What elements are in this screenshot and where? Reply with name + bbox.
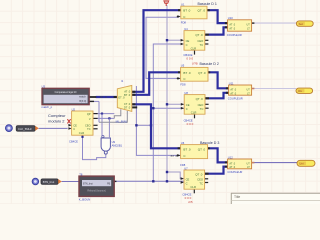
wire CE trunk (x=167) <box>166 5 168 181</box>
wire gate out to CLR <box>83 137 106 160</box>
junction cross 1 <box>135 124 137 126</box>
output port Uni <box>297 160 315 166</box>
wire coupler3 to port3 <box>252 162 297 164</box>
svg-text:QT .0: QT .0 <box>198 71 206 75</box>
power symbol VCC <box>165 3 167 6</box>
svg-text:AT .0: AT .0 <box>229 166 235 169</box>
svg-text:match: match <box>79 96 86 99</box>
and gate input bubble <box>102 136 104 138</box>
stub B1 CLR <box>194 50 196 54</box>
stub mux out3 <box>132 103 136 105</box>
stub cnt V <box>93 117 97 119</box>
svg-text:AT .0: AT .0 <box>229 162 235 165</box>
stub C2 in2 <box>226 92 229 94</box>
junction CE bottom <box>166 180 168 182</box>
stub B2 C arrow <box>181 107 184 110</box>
svg-text:LT: LT <box>247 166 250 169</box>
junction clock bottom <box>152 180 154 182</box>
flip-flop A1 body <box>181 6 207 19</box>
wire B2 CE branch <box>167 103 184 105</box>
wire clk input <box>39 127 68 129</box>
stub B3 Q <box>204 173 209 175</box>
flip-flop A2 body <box>181 67 208 81</box>
junction cnt mesh <box>101 113 103 115</box>
stub A1 Q <box>207 9 210 11</box>
stub A2 C arrow <box>177 77 179 79</box>
junction clr pin <box>81 136 83 138</box>
wire B-clock trunk (x=153.3) <box>153 44 181 181</box>
stub B2 Q <box>204 97 209 99</box>
svg-text:ML_B(N): ML_B(N) <box>116 119 127 123</box>
svg-text:U?B: U?B <box>192 62 198 66</box>
stub A3 Q <box>207 147 210 149</box>
stub C1 in1 <box>225 22 228 24</box>
bus A1 Q to coupler1 <box>208 10 228 23</box>
svg-text:K_BOUN: K_BOUN <box>79 198 91 202</box>
svg-text:BT .0: BT .0 <box>183 71 190 75</box>
coupler C3 body <box>228 159 252 169</box>
svg-text:UT: UT <box>246 162 250 165</box>
coupler C1 body <box>228 20 252 31</box>
stub cnt TC <box>93 128 97 130</box>
svg-text:Title: Title <box>234 195 240 199</box>
input port BTN pill <box>41 179 58 185</box>
wire coupler2 to port2 <box>252 88 296 90</box>
comparator U3 body <box>42 88 89 104</box>
junction cross 2 <box>150 124 152 126</box>
svg-text:B(3:0): B(3:0) <box>79 100 86 103</box>
stub C1 in2 <box>225 26 228 28</box>
junction B2 clock <box>152 107 154 109</box>
stub A2 Q <box>207 71 210 73</box>
stub comparator p1 <box>89 96 96 98</box>
svg-text:CLR: CLR <box>191 46 197 50</box>
stub cnt C arrow <box>68 127 71 130</box>
wire mux pinA jog <box>114 109 121 118</box>
counter U2 body <box>72 111 93 135</box>
title block frame <box>231 193 320 204</box>
wire gate in2 drop <box>108 118 110 137</box>
svg-text:QT .0: QT .0 <box>198 9 206 13</box>
svg-text:0 0 0: 0 0 0 <box>187 122 194 126</box>
svg-text:UT: UT <box>246 88 250 91</box>
bus A2 Q to coupler2 <box>208 72 228 88</box>
stub C2 in1 <box>226 87 229 89</box>
wire B3 CE branch <box>167 172 183 179</box>
stub A1 C arrow <box>177 16 179 18</box>
stub A3 D <box>178 147 181 149</box>
bus mux out3 to A3 D <box>132 104 181 148</box>
and gate U9 body <box>101 138 110 151</box>
stub B2 CEO <box>205 103 209 105</box>
bus A3 Q to coupler3 <box>208 148 228 162</box>
svg-text:0 0 0: 0 0 0 <box>186 57 193 61</box>
stub B3 CEO <box>205 178 209 180</box>
svg-text:AT .0: AT .0 <box>230 92 236 95</box>
wire coupler1 to port1 <box>252 22 296 24</box>
stub cnt QP <box>93 113 97 115</box>
wire cross link y=125.3 <box>136 124 151 126</box>
wire debounce clock out <box>114 180 184 182</box>
bus comparator to mux <box>96 96 118 98</box>
stub comparator p2 <box>89 100 94 102</box>
svg-text:CLR: CLR <box>191 110 197 114</box>
stub A3 C arrow <box>177 154 179 156</box>
mux body <box>117 85 132 111</box>
svg-text:QT .0: QT .0 <box>195 172 203 176</box>
stub B1 Q <box>204 34 209 36</box>
svg-text:BT .0: BT .0 <box>183 9 190 13</box>
svg-text:Bascule D 1: Bascule D 1 <box>198 2 217 6</box>
junction B2 CE <box>166 103 168 105</box>
stub B1 C arrow <box>181 43 184 46</box>
svg-text:PB: PB <box>107 184 111 186</box>
stub C2 out <box>252 88 255 90</box>
stub C3 in1 <box>225 161 228 163</box>
stub B1 CE arrow <box>181 39 184 42</box>
bus B2 Q to coupler2 <box>205 93 228 99</box>
debounce block body <box>79 176 114 196</box>
stub mux out2 <box>132 94 136 96</box>
stub B3 TC <box>205 182 209 184</box>
svg-text:UT: UT <box>246 23 250 26</box>
stub C3 out <box>252 162 255 164</box>
wire gate in1 drop <box>101 114 103 138</box>
stub B1 CEO <box>205 39 209 41</box>
svg-text:AT .0: AT .0 <box>229 23 235 26</box>
wire B2 clock branch <box>153 107 184 109</box>
svg-text:Rebond (bounce): Rebond (bounce) <box>87 190 106 193</box>
bus B1 Q to coupler1 <box>205 27 228 34</box>
svg-text:Bascule D 3: Bascule D 3 <box>200 141 219 145</box>
svg-text:BT .0: BT .0 <box>171 154 178 158</box>
svg-text:BT .0: BT .0 <box>100 95 107 99</box>
bus mux out2 to A2 D <box>132 72 181 95</box>
stub A1 D <box>178 9 181 11</box>
junction B3 CE <box>166 171 168 173</box>
svg-text:QT .0: QT .0 <box>196 97 204 101</box>
counter B2 body <box>184 95 205 115</box>
svg-text:modulo 2: modulo 2 <box>48 119 65 124</box>
coupler C2 body <box>229 85 252 95</box>
stub B3 C arrow <box>181 181 184 184</box>
input marker icon 2 <box>32 178 38 184</box>
svg-text:LT: LT <box>247 28 250 31</box>
wire B1 CE branch <box>167 39 181 41</box>
junction B1 CE <box>166 39 168 41</box>
counter B3 body <box>184 170 205 189</box>
stub C3 in2 <box>225 166 228 168</box>
flip-flop A3 body <box>181 145 208 159</box>
svg-text:BT .0: BT .0 <box>183 147 190 151</box>
svg-text:LT: LT <box>247 92 250 95</box>
stub B2 TC <box>205 107 209 109</box>
svg-text:CLR: CLR <box>190 185 196 189</box>
output port Dix <box>296 88 313 93</box>
stub debounce out <box>114 180 117 182</box>
svg-text:0 0 0: 0 0 0 <box>185 196 192 200</box>
and gate output bubble <box>104 151 107 154</box>
svg-text:QT .0: QT .0 <box>195 33 203 37</box>
input marker icon 1 <box>5 125 12 132</box>
stub C1 out <box>252 22 255 24</box>
svg-text:Compteur: Compteur <box>48 113 66 118</box>
wire comparator p2 drop <box>94 100 99 102</box>
svg-text:match_p: match_p <box>41 105 52 109</box>
stub cnt CE arrow <box>68 124 71 127</box>
stub B2 CE arrow <box>181 103 184 106</box>
stub B3 CLR <box>193 189 195 193</box>
svg-text:Bascule D 2: Bascule D 2 <box>200 62 219 66</box>
wire mux D-trunk (x=136.4) <box>136 86 180 155</box>
wire mux pinB jog <box>99 111 127 122</box>
input port CLK pill <box>16 126 35 132</box>
stub mux out4 <box>132 106 138 108</box>
svg-text:AT .0: AT .0 <box>229 28 235 31</box>
wire cnt V to mesh <box>97 117 114 119</box>
stub B2 CLR <box>194 114 196 118</box>
stub A2 D <box>178 71 181 73</box>
wire clock trunk A (x=146) <box>146 17 179 78</box>
stub mux out1 <box>132 91 136 93</box>
wire cnt Q to mesh <box>97 113 114 115</box>
stub B1 TC <box>205 43 209 45</box>
svg-text:QT .0: QT .0 <box>198 147 206 151</box>
stub cnt CEO <box>93 124 97 126</box>
stub mux in <box>114 96 118 98</box>
junction gate in2 <box>108 117 110 119</box>
wire btn input <box>62 181 79 183</box>
svg-text:d B: d B <box>188 200 193 204</box>
unconnected pin marker <box>67 119 70 123</box>
bus B3 Q to coupler3 <box>205 167 228 174</box>
svg-text:AT .0: AT .0 <box>230 88 236 91</box>
counter B1 body <box>184 31 205 51</box>
stub B3 CE arrow <box>181 177 184 180</box>
bus mux out1 to A1 D <box>132 10 181 92</box>
output port Sec <box>296 21 313 26</box>
